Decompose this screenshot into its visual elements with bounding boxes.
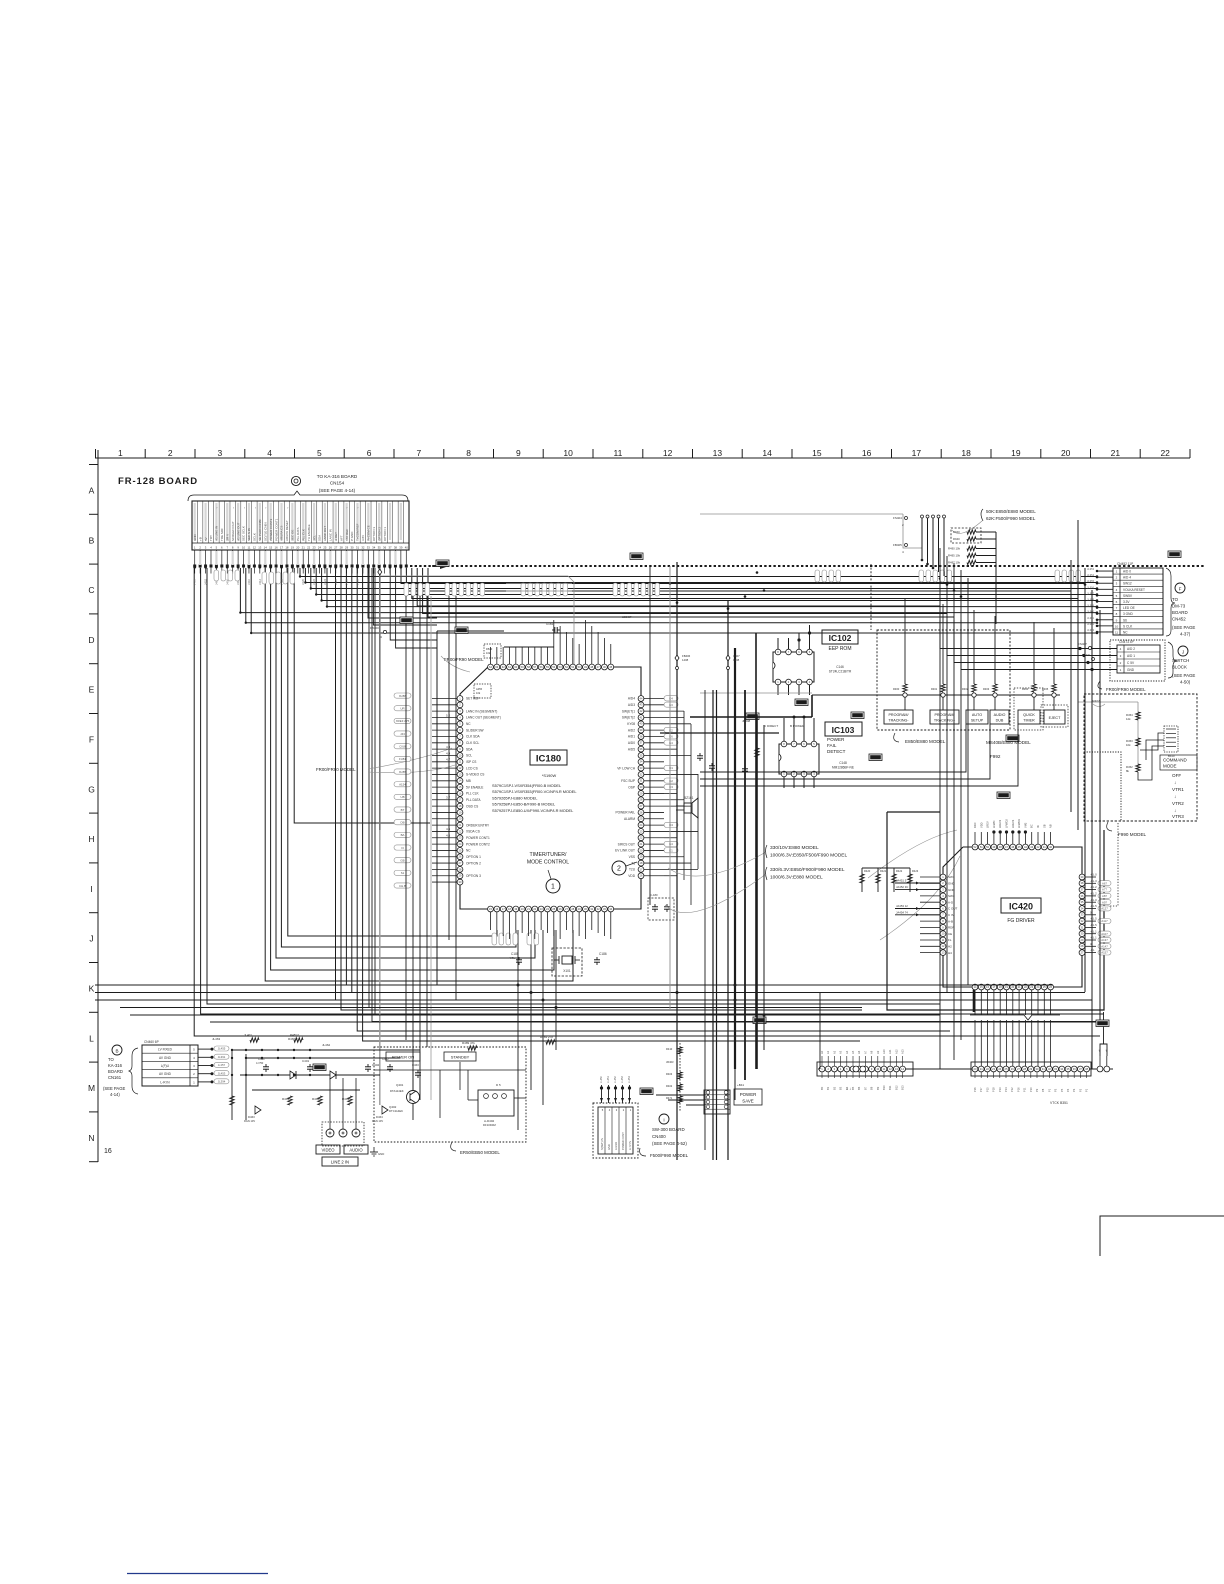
- svg-text:38: 38: [394, 546, 398, 550]
- svg-text:25: 25: [323, 546, 327, 550]
- svg-text:P12: P12: [1010, 1087, 1014, 1092]
- IC103 label box: [825, 722, 862, 736]
- reset IC box: [478, 1090, 514, 1116]
- svg-text:FR00/FR90 MODEL: FR00/FR90 MODEL: [444, 657, 484, 662]
- bottom connector right pair: [1097, 1066, 1103, 1072]
- svg-text:VTR1: VTR1: [1172, 787, 1184, 792]
- connector CN104 slot dividers and pin labels: [193, 501, 404, 543]
- svg-text:↓: ↓: [1174, 780, 1176, 785]
- svg-text:ID: ID: [1036, 825, 1040, 828]
- line2in circuit wires: [231, 1050, 233, 1120]
- IC420 pin1 thick stub: [973, 990, 976, 1012]
- svg-text:RGN 10V: RGN 10V: [372, 1119, 383, 1123]
- svg-text:P+COM CE: P+COM CE: [367, 525, 371, 541]
- svg-text:OSP: OSP: [628, 785, 635, 789]
- IC180 label box: [530, 750, 567, 765]
- resistor R181: [755, 748, 759, 757]
- right side vertical drops: [683, 711, 685, 880]
- svg-text:→: →: [231, 506, 235, 509]
- svg-text:SCL: SCL: [466, 754, 472, 758]
- svg-text:CN400: CN400: [652, 1134, 666, 1139]
- svg-text:P1: P1: [1047, 1088, 1051, 1092]
- svg-text:AV GND: AV GND: [159, 1056, 172, 1060]
- svg-text:CN161: CN161: [108, 1075, 122, 1080]
- svg-text:16: 16: [862, 448, 872, 458]
- svg-text:(SEE PAGE: (SEE PAGE: [103, 1086, 125, 1091]
- svg-text:FG DRIVER: FG DRIVER: [1007, 918, 1035, 924]
- svg-text:14: 14: [264, 546, 268, 550]
- svg-text:L(F)LI: L(F)LI: [161, 1064, 170, 1068]
- svg-text:A67: A67: [1102, 881, 1107, 885]
- svg-text:S CLK: S CLK: [1123, 624, 1133, 628]
- svg-text:*S190W: *S190W: [542, 773, 557, 778]
- svg-text:MODE: MODE: [1163, 764, 1177, 769]
- fuse C407: [726, 655, 730, 661]
- IC180 top comb bus: [436, 631, 438, 985]
- grid reference box B-8: [630, 553, 643, 560]
- svg-text:OSD CS: OSD CS: [466, 804, 478, 808]
- svg-text:SET REF: SET REF: [466, 697, 479, 701]
- svg-text:SW5V: SW5V: [1123, 594, 1133, 598]
- svg-text:TRACKING-: TRACKING-: [888, 719, 909, 723]
- svg-text:A/D1: A/D1: [628, 735, 635, 739]
- buzzer BZ101 symbol: [684, 803, 692, 813]
- command mode wires 2: [1140, 733, 1164, 750]
- reference circle I: [659, 1114, 669, 1124]
- svg-text:D463: D463: [248, 1115, 255, 1119]
- svg-text:TO: TO: [108, 1057, 114, 1062]
- svg-text:17: 17: [280, 546, 284, 550]
- svg-text:P3: P3: [1072, 1088, 1076, 1092]
- svg-text:JL962: JL962: [1087, 622, 1095, 626]
- svg-text:P15: P15: [985, 1087, 989, 1092]
- svg-text:LANC OUT (SEGMENT): LANC OUT (SEGMENT): [466, 716, 501, 720]
- svg-text:EJECT: EJECT: [1049, 716, 1061, 720]
- svg-text:10k: 10k: [1126, 743, 1131, 747]
- IC180 left pin stub wires: [432, 698, 457, 700]
- svg-text:LREV: LREV: [986, 821, 990, 828]
- svg-text:JL450: JL450: [600, 1076, 603, 1083]
- svg-text:C186: C186: [599, 952, 607, 956]
- gray rail extensions: [379, 830, 381, 1105]
- svg-text:POWER CONT2: POWER CONT2: [466, 842, 490, 846]
- svg-text:S579C1SPJ-VSXR353(FR00-VC/NP/L: S579C1SPJ-VSXR353(FR00-VC/NP/LR MODEL: [492, 789, 577, 794]
- svg-text:A107: A107: [1101, 932, 1108, 936]
- svg-text:R421: R421: [880, 869, 887, 873]
- capacitor C185: [518, 957, 520, 960]
- switch block table CN473: [1117, 645, 1160, 673]
- svg-text:3 GND: 3 GND: [1123, 612, 1133, 616]
- quick timer dashed box: [1014, 688, 1043, 730]
- svg-text:TO KA-316 BOARD: TO KA-316 BOARD: [317, 474, 358, 479]
- svg-text:9: 9: [516, 448, 521, 458]
- svg-text:27: 27: [334, 546, 338, 550]
- svg-text:L-R IN: L-R IN: [160, 1080, 170, 1084]
- svg-text:ORDER ENTRY: ORDER ENTRY: [466, 823, 490, 827]
- svg-text:10: 10: [242, 546, 246, 550]
- IC180 bottom pin drop wires: [490, 912, 492, 930]
- svg-text:SW(ET)1: SW(ET)1: [622, 709, 635, 713]
- svg-text:B9: B9: [876, 1086, 880, 1090]
- svg-text:JL954: JL954: [1087, 573, 1095, 577]
- svg-text:GND: GND: [193, 534, 197, 542]
- svg-text:EEP ROM: EEP ROM: [829, 646, 852, 652]
- svg-text:5.2: 5.2: [446, 713, 451, 717]
- svg-text:D464: D464: [376, 1115, 383, 1119]
- svg-text:12k: 12k: [1126, 717, 1131, 721]
- svg-text:4.6: 4.6: [446, 834, 451, 838]
- svg-text:S579257PJ-E850-UX/F990-VC/NP/L: S579257PJ-E850-UX/F990-VC/NP/LR MODEL: [492, 808, 574, 813]
- svg-text:62K:F500/F990 MODEL: 62K:F500/F990 MODEL: [986, 516, 1036, 521]
- svg-text:JR403: JR403: [666, 1060, 674, 1064]
- svg-text:-CL 5: -CL 5: [1090, 904, 1097, 908]
- svg-text:C148: C148: [839, 761, 847, 765]
- svg-text:VSS: VSS: [629, 855, 635, 859]
- svg-text:H1 LINE IN: H1 LINE IN: [215, 526, 219, 541]
- svg-text:22: 22: [307, 546, 311, 550]
- power save wires: [656, 1094, 704, 1096]
- svg-text:I3: I3: [401, 846, 404, 850]
- svg-text:A/D 1: A/D 1: [1127, 654, 1135, 658]
- svg-text:-CL 0: -CL 0: [1090, 898, 1097, 902]
- svg-text:BOARD: BOARD: [1172, 610, 1188, 615]
- svg-text:A87: A87: [1102, 894, 1107, 898]
- right vertical bus group: [1070, 560, 1072, 812]
- buttons: [884, 710, 913, 724]
- jack circles: [326, 1129, 334, 1137]
- svg-text:S579C1SPJ-VSXR354(FR00-B MODEL: S579C1SPJ-VSXR354(FR00-B MODEL: [492, 783, 562, 788]
- IC102 pin wires: [777, 638, 779, 649]
- svg-text:DRC: DRC: [973, 822, 977, 828]
- svg-text:JL348: JL348: [742, 719, 751, 723]
- svg-text:GND: GND: [1127, 668, 1135, 672]
- svg-text:13: 13: [258, 546, 262, 550]
- svg-text:ER50/EB50 MODEL: ER50/EB50 MODEL: [460, 1150, 500, 1155]
- svg-text:AFT: AFT: [339, 535, 343, 541]
- svg-text:JL454: JL454: [628, 1076, 631, 1083]
- svg-text:4-50): 4-50): [1180, 680, 1191, 685]
- svg-text:15: 15: [812, 448, 822, 458]
- svg-text:18: 18: [961, 448, 971, 458]
- transistor Q401: [407, 1091, 420, 1104]
- svg-text:DUB: DUB: [996, 719, 1004, 723]
- svg-text:JL956: JL956: [1087, 585, 1095, 589]
- svg-text:C/U8: C/U8: [399, 745, 406, 749]
- ER50 EB50 model label: [451, 1142, 456, 1151]
- svg-text:VM2: VM2: [1023, 822, 1027, 828]
- svg-text:R423: R423: [912, 869, 919, 873]
- command mode label box: [1160, 755, 1197, 770]
- svg-text:A/D2: A/D2: [628, 728, 635, 732]
- svg-text:A1: A1: [826, 1050, 830, 1054]
- svg-text:FAIL: FAIL: [827, 743, 837, 748]
- command connector dotted: [1164, 726, 1178, 752]
- button block dashed box: [877, 630, 1010, 730]
- resistor bank R420-R423: [861, 868, 863, 892]
- power on standby dashed box: [374, 1047, 526, 1142]
- svg-text:ARUPA RESET: ARUPA RESET: [285, 520, 289, 541]
- svg-text:4.3: 4.3: [446, 745, 451, 749]
- wire bundle center verticals: [336, 568, 1093, 1000]
- capacitor C401: [309, 1064, 311, 1067]
- capacitor bank near IC103: [699, 753, 701, 756]
- svg-text:FR00/FR90 MODEL: FR00/FR90 MODEL: [1106, 687, 1146, 692]
- svg-text:9U85: 9U85: [399, 770, 406, 774]
- svg-text:J402: J402: [204, 578, 208, 585]
- svg-text:POWER CONT1: POWER CONT1: [466, 836, 490, 840]
- capacitor C462: [389, 1064, 391, 1067]
- svg-text:LFWD2: LFWD2: [1005, 819, 1009, 828]
- svg-text:A3: A3: [839, 1050, 843, 1054]
- svg-text:A/D 0: A/D 0: [1123, 570, 1131, 574]
- svg-text:RGN 10V: RGN 10V: [244, 1119, 255, 1123]
- IC420 bottom bracket: [970, 1015, 1060, 1020]
- svg-text:LFWD3: LFWD3: [1017, 819, 1021, 828]
- svg-text:1408: 1408: [682, 658, 689, 662]
- svg-text:H1 LINE OUT: H1 LINE OUT: [236, 522, 240, 541]
- verticals from tag row down: [405, 596, 407, 1040]
- svg-text:T2U: T2U: [629, 868, 636, 872]
- svg-text:→: →: [285, 506, 289, 509]
- svg-text:19: 19: [1011, 448, 1021, 458]
- vertical rail 650: [649, 566, 651, 905]
- svg-text:BZ101: BZ101: [684, 796, 694, 800]
- svg-text:I: I: [663, 1118, 664, 1123]
- svg-text:A GND: A GND: [614, 1142, 618, 1150]
- svg-text:LREV2: LREV2: [998, 819, 1002, 828]
- svg-text:S1: S1: [401, 871, 405, 875]
- svg-text:8: 8: [466, 448, 471, 458]
- svg-text:R471: R471: [666, 1096, 673, 1100]
- svg-text:A/D3: A/D3: [628, 703, 635, 707]
- svg-text:R940: R940: [953, 537, 960, 541]
- svg-text:B: B: [89, 535, 95, 545]
- thick vertical pair 713: [712, 690, 714, 1160]
- svg-text:MB: MB: [466, 779, 471, 783]
- svg-text:30: 30: [350, 546, 354, 550]
- svg-text:B3: B3: [839, 1086, 843, 1090]
- svg-text:CN460 6P: CN460 6P: [144, 1040, 159, 1044]
- dashed signal bus line: [410, 565, 1205, 567]
- svg-text:P17: P17: [979, 1087, 983, 1092]
- svg-text:POWER: POWER: [740, 1092, 757, 1097]
- svg-text:XSDA CS: XSDA CS: [466, 830, 480, 834]
- svg-text:A4: A4: [845, 1050, 849, 1054]
- switch block brace: [1168, 642, 1177, 678]
- IC180 left pin labels: [466, 697, 501, 878]
- svg-text:VTCK B351: VTCK B351: [1050, 1101, 1068, 1105]
- gray vertical rail 670: [669, 566, 671, 1010]
- svg-text:Q401: Q401: [396, 1083, 404, 1087]
- svg-text:P18: P18: [992, 1087, 996, 1092]
- svg-text:A10: A10: [882, 1049, 886, 1054]
- top ruler ticks: [96, 449, 1191, 458]
- svg-text:39: 39: [399, 546, 403, 550]
- op IC102 body: [773, 652, 814, 682]
- svg-text:STANDBY: STANDBY: [451, 1055, 470, 1060]
- svg-text:J: J: [1182, 650, 1184, 655]
- svg-text:GB: GB: [400, 858, 404, 862]
- svg-text:R460: R460: [893, 687, 900, 691]
- svg-text:A/D4: A/D4: [628, 697, 635, 701]
- svg-text:J43: J43: [400, 732, 405, 736]
- bottom horizontal bus group: [95, 984, 1053, 986]
- mid vertical bus group: [939, 548, 941, 1069]
- svg-text:↓: ↓: [1174, 808, 1176, 813]
- svg-text:H DET: H DET: [334, 532, 338, 541]
- CN452 brace: [1166, 568, 1175, 636]
- svg-text:ALARM: ALARM: [624, 817, 635, 821]
- bottom connector pair elbow: [1100, 1044, 1107, 1056]
- svg-text:SWITCH: SWITCH: [1172, 658, 1189, 663]
- svg-text:F992: F992: [990, 754, 1001, 759]
- svg-text:2: 2: [617, 866, 621, 873]
- IC180 left pin column: [457, 696, 463, 702]
- svg-text:VF LOW CH: VF LOW CH: [617, 766, 635, 770]
- reference circle F: [1175, 583, 1185, 593]
- bus arrow: [440, 563, 449, 569]
- svg-text:6: 6: [367, 448, 372, 458]
- svg-text:DF10D4M: DF10D4M: [483, 1123, 496, 1127]
- svg-text:NC: NC: [1123, 630, 1128, 634]
- IC102 label box: [822, 630, 858, 644]
- svg-text:A6: A6: [857, 1050, 861, 1054]
- svg-text:B10: B10: [882, 1085, 886, 1090]
- svg-text:PLL DATA: PLL DATA: [296, 527, 300, 541]
- connector left group body: [817, 1062, 913, 1076]
- svg-text:P16: P16: [973, 1087, 977, 1092]
- svg-text:→: →: [264, 506, 268, 509]
- svg-text:H2: H2: [948, 945, 952, 949]
- AUDIO label box: [344, 1145, 368, 1154]
- resistor R403: [348, 1096, 352, 1105]
- svg-text:B5: B5: [851, 1086, 855, 1090]
- svg-text:P5: P5: [1060, 1088, 1064, 1092]
- svg-text:A13: A13: [901, 1049, 905, 1054]
- svg-text:P2: P2: [1078, 1088, 1082, 1092]
- svg-text:3.3V: 3.3V: [1123, 600, 1130, 604]
- svg-text:A97: A97: [1102, 900, 1107, 904]
- gray link under IC102: [700, 692, 812, 694]
- bottom connector left pin group: [819, 1066, 825, 1072]
- svg-text:9U86: 9U86: [399, 694, 406, 698]
- svg-text:29: 29: [345, 546, 349, 550]
- junction dots mid band: [669, 582, 672, 585]
- svg-text:C461: C461: [258, 1057, 265, 1061]
- svg-text:R402: R402: [666, 1084, 673, 1088]
- svg-text:S6: S6: [1123, 618, 1127, 622]
- top ruler numbers 1-22: [118, 448, 1170, 458]
- svg-text:A5: A5: [851, 1050, 855, 1054]
- svg-text:31: 31: [356, 546, 360, 550]
- IC180 right pin stub wires: [644, 698, 664, 700]
- svg-text:A-D: A-D: [948, 900, 954, 904]
- IC420 bottom drop wires: [974, 1020, 976, 1066]
- svg-text:TU ENABLE: TU ENABLE: [307, 524, 311, 541]
- svg-text:R403: R403: [666, 1072, 673, 1076]
- svg-text:BC: BC: [1030, 824, 1034, 828]
- svg-text:OPTION 2: OPTION 2: [466, 861, 481, 865]
- svg-text:SE PHON CNBI: SE PHON CNBI: [258, 519, 262, 541]
- F500/F990 model label: [640, 1148, 646, 1156]
- op IC420 body outline: [943, 847, 1082, 987]
- svg-text:3.7: 3.7: [446, 796, 451, 800]
- svg-text:JA453 12: JA453 12: [896, 904, 908, 908]
- connector CN452 table: [1113, 568, 1163, 635]
- junction tags into IC420: [895, 882, 940, 884]
- svg-text:10: 10: [563, 448, 573, 458]
- svg-text:1408: 1408: [733, 658, 740, 662]
- svg-text:BA: BA: [401, 833, 405, 837]
- svg-text:S-VIDEO CS: S-VIDEO CS: [466, 773, 484, 777]
- svg-text:RDF: RDF: [948, 926, 954, 930]
- capacitor C461: [265, 1064, 267, 1067]
- IC180 note circle 2: [612, 861, 626, 875]
- svg-text:37: 37: [388, 546, 392, 550]
- svg-text:A/D5: A/D5: [628, 747, 635, 751]
- svg-text:SDA: SDA: [466, 747, 473, 751]
- svg-text:POWER: POWER: [827, 737, 845, 742]
- wire long horizontal buses upper: [401, 568, 1085, 584]
- svg-text:JL959: JL959: [1087, 604, 1095, 608]
- svg-text:TRY: TRY: [209, 535, 213, 541]
- svg-text:J424: J424: [323, 578, 327, 585]
- svg-text:SLIDER SW: SLIDER SW: [466, 728, 484, 732]
- svg-text:G: G: [88, 784, 95, 794]
- STANDBY label: [444, 1052, 476, 1061]
- svg-text:12: 12: [253, 546, 257, 550]
- IC420 top pin rotated labels: [973, 819, 1053, 828]
- IC420 top pins: [972, 844, 978, 850]
- svg-text:OPTION 1: OPTION 1: [466, 855, 481, 859]
- svg-text:AV GND: AV GND: [159, 1072, 172, 1076]
- svg-text:XREF A75: XREF A75: [396, 719, 410, 723]
- svg-text:36: 36: [383, 546, 387, 550]
- svg-text:JL463: JL463: [212, 1037, 221, 1041]
- svg-text:DTC114EK: DTC114EK: [389, 1109, 403, 1113]
- rotated net labels under connector: [193, 578, 371, 585]
- svg-text:SCL: SCL: [312, 535, 316, 541]
- dashed option box upper: [484, 644, 501, 658]
- wires around IC103: [660, 732, 779, 734]
- svg-text:4.7/50: 4.7/50: [256, 1061, 264, 1065]
- svg-text:MODE CONTROL: MODE CONTROL: [527, 860, 569, 866]
- svg-text:VTR3: VTR3: [1172, 814, 1184, 819]
- svg-text:QUICK: QUICK: [1023, 713, 1035, 717]
- svg-text:-CL 2: -CL 2: [1090, 885, 1097, 889]
- svg-text:R464: R464: [1022, 687, 1029, 691]
- svg-text:34: 34: [372, 546, 376, 550]
- svg-text:FL: FL: [948, 938, 952, 942]
- svg-text:B0: B0: [820, 1086, 824, 1090]
- svg-text:3.8V: 3.8V: [361, 535, 365, 541]
- gray corner bus upper: [381, 576, 574, 664]
- crystal X101 symbol: [562, 956, 572, 964]
- svg-text:R410: R410: [666, 1047, 673, 1051]
- svg-text:CLK SCL: CLK SCL: [466, 741, 480, 745]
- svg-text:R401: R401: [282, 1097, 290, 1101]
- svg-text:A77: A77: [1102, 888, 1107, 892]
- svg-text:R489 47k: R489 47k: [462, 1041, 475, 1045]
- svg-text:B11: B11: [888, 1085, 892, 1090]
- svg-text:4.6: 4.6: [446, 827, 451, 831]
- svg-text:OPTION 1: OPTION 1: [383, 527, 387, 541]
- svg-text:1: 1: [551, 884, 555, 891]
- svg-text:R940: R940: [953, 530, 960, 534]
- svg-text:R495 10k: R495 10k: [948, 554, 961, 558]
- mesh junction dots: [231, 1049, 233, 1051]
- resistor chain dashed: [679, 1043, 681, 1112]
